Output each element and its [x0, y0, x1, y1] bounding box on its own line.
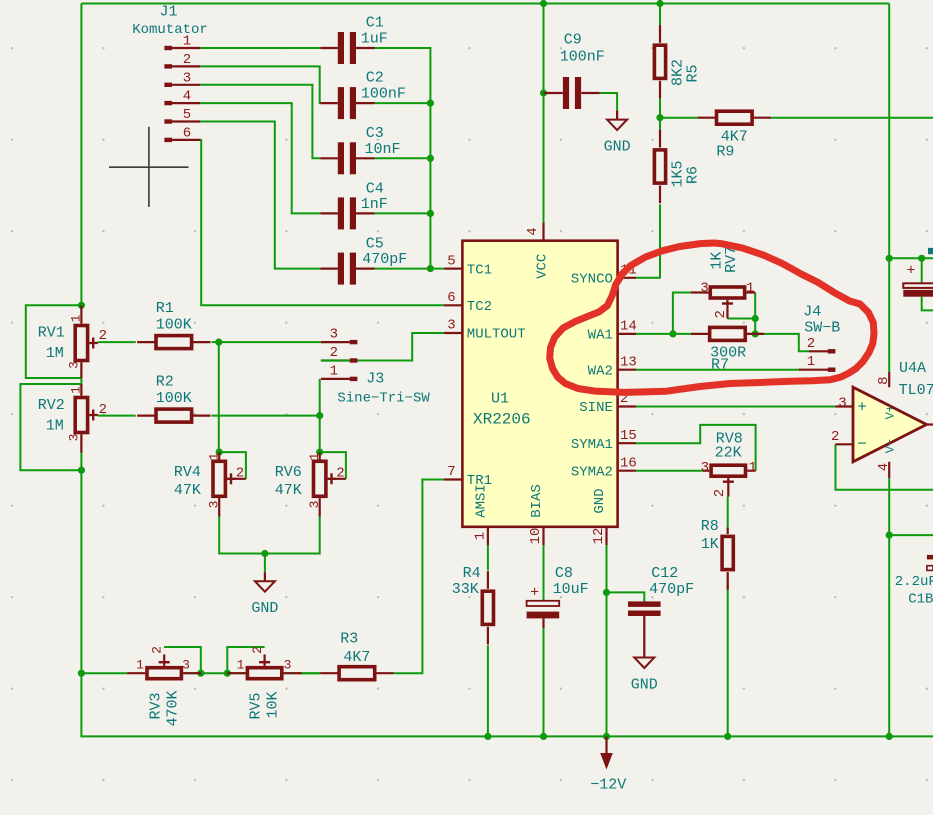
svg-text:C5: C5 [366, 236, 384, 253]
svg-text:47K: 47K [275, 482, 302, 499]
svg-text:C1B: C1B [908, 592, 933, 608]
wire RV4 pin1 stub [218, 452, 220, 459]
svg-text:10nF: 10nF [364, 141, 400, 158]
wire RV2 pin3 down left rail [80, 434, 82, 673]
svg-text:C2: C2 [366, 70, 384, 87]
wire J1 pin5 to C5 [200, 122, 320, 269]
wire SYMA2 to RV8 pin3 [636, 470, 703, 472]
wire SINE to opamp + [636, 406, 836, 408]
junction RV3 pin3 [197, 670, 204, 677]
connector J3 pin 2 [321, 345, 412, 363]
svg-text:3: 3 [447, 318, 455, 334]
wire SYMA1 to RV8 pin1 [636, 425, 756, 471]
junction top rail / R5 [656, 0, 663, 7]
wire RV5 to R3 [283, 672, 320, 674]
capacitor C8 (polarized 10uF) [527, 585, 560, 629]
wire RV4 pin3 to gnd node [219, 517, 265, 554]
svg-text:1: 1 [330, 363, 338, 379]
svg-text:+: + [530, 585, 539, 602]
svg-text:WA2: WA2 [588, 363, 613, 379]
svg-text:470pF: 470pF [362, 251, 407, 268]
svg-text:1uF: 1uF [361, 30, 388, 47]
wire RV8 pin3 lead [703, 470, 709, 472]
wire RV3 pin3 lead [183, 672, 201, 674]
ground symbol near C9 [604, 120, 631, 156]
junction right rail C10 [886, 255, 893, 262]
svg-text:1: 1 [807, 354, 815, 370]
svg-text:4K7: 4K7 [343, 649, 370, 666]
junction R5 R6 R9 [656, 114, 663, 121]
svg-text:SYMA2: SYMA2 [571, 464, 613, 480]
junction top rail / VCC [540, 0, 547, 7]
svg-text:R7: R7 [711, 357, 729, 374]
svg-text:C9: C9 [564, 31, 582, 48]
svg-text:3: 3 [307, 501, 322, 509]
svg-text:2: 2 [149, 646, 164, 654]
wire node to C1B [889, 534, 933, 536]
potentiometer RV7 [710, 287, 744, 319]
capacitor C5 [338, 253, 356, 285]
wire left rail top segment [80, 4, 82, 306]
svg-text:3: 3 [206, 501, 221, 509]
svg-text:2: 2 [236, 466, 244, 482]
wire R1 to J3 pin3 [212, 341, 321, 343]
wire J1 pin2 to C2 [200, 66, 320, 103]
junction WA1 RV7 [669, 330, 676, 337]
svg-text:BIAS: BIAS [529, 484, 545, 518]
wire node to R9 [660, 117, 698, 119]
wire RV5 pin3 lead [284, 672, 302, 674]
wire R1 node down to RV4 [218, 342, 220, 452]
potentiometer RV3 [147, 654, 181, 678]
svg-text:RV5: RV5 [248, 692, 265, 719]
svg-text:4: 4 [525, 227, 541, 235]
connector J3 pin 3 [321, 327, 358, 345]
wire C4 right lead [356, 212, 375, 214]
svg-text:+: + [906, 263, 915, 280]
wire AMSI to R4 [487, 545, 489, 570]
svg-text:2: 2 [330, 345, 338, 361]
wire C9 right lead [581, 92, 599, 94]
junction rail RV1 [78, 302, 85, 309]
U1 pin 13 WA2 [588, 354, 637, 379]
potentiometer RV4 [213, 461, 236, 496]
svg-text:R8: R8 [701, 518, 719, 535]
red freehand annotation circle [550, 243, 874, 392]
svg-text:J4: J4 [803, 304, 821, 321]
capacitor C4 [338, 197, 356, 229]
svg-text:1: 1 [307, 452, 322, 460]
svg-text:1K: 1K [701, 536, 719, 553]
svg-text:2: 2 [336, 466, 344, 482]
svg-text:100nF: 100nF [361, 86, 406, 103]
connector J3 pin 1 [321, 363, 358, 381]
svg-text:Sine−Tri−SW: Sine−Tri−SW [337, 390, 430, 406]
wire C2 left lead [320, 102, 338, 104]
connector J4 pin 2 [807, 336, 836, 354]
junction bottom rail GND12 [603, 733, 610, 740]
U1 pin 10 BIAS [528, 484, 545, 545]
junction R2 J3 [316, 412, 323, 419]
wire RV5 pin1 lead [227, 672, 245, 674]
wire RV4 wiper stub [227, 478, 246, 480]
wire R3 to TR1 [394, 480, 445, 674]
U1 pin 11 SYNCO [571, 263, 637, 288]
wire RV1 pin1 stub [80, 305, 82, 323]
svg-text:MULTOUT: MULTOUT [467, 327, 526, 343]
svg-text:C12: C12 [651, 565, 678, 582]
wire RV1 wiper to R1 [98, 341, 136, 343]
svg-text:RV1: RV1 [38, 324, 65, 341]
svg-text:3: 3 [182, 657, 190, 672]
junction rail RV2 pin3 [78, 467, 85, 474]
wire RV7 wiper to node [727, 318, 755, 320]
svg-text:1: 1 [136, 657, 144, 672]
resistor R4 [482, 571, 493, 644]
wire C2 to bus [375, 102, 431, 104]
junction C10 top [918, 255, 925, 262]
wire RV6 wiper stub [328, 478, 346, 480]
svg-text:100nF: 100nF [560, 48, 605, 65]
wire RV6 pin1 stub [319, 452, 321, 459]
svg-text:7: 7 [447, 464, 455, 480]
U1 pin 14 WA1 [588, 319, 637, 344]
resistor R2 [137, 409, 210, 422]
svg-text:SW−B: SW−B [804, 320, 840, 337]
svg-text:C4: C4 [366, 180, 384, 197]
svg-text:6: 6 [447, 290, 455, 306]
capacitor C2 [338, 87, 356, 119]
wire C9 gnd stub [616, 110, 618, 119]
svg-text:U1: U1 [491, 391, 509, 408]
capacitor C3 [338, 142, 356, 174]
U1 pin 15 SYMA1 [571, 428, 637, 453]
wire J1 pin1 to C1 [200, 47, 320, 49]
wire C1 left lead [320, 47, 338, 49]
junction RV4 pin1 [216, 449, 223, 456]
U1 pin 7 TR1 [444, 464, 492, 489]
junction VCC / C9 [540, 89, 547, 96]
svg-text:V+: V+ [884, 405, 898, 419]
svg-text:3: 3 [66, 361, 81, 369]
svg-text:Komutator: Komutator [132, 22, 208, 38]
svg-text:TC2: TC2 [467, 299, 492, 315]
svg-text:AMSI: AMSI [474, 484, 490, 518]
wire gnd node stub [264, 554, 266, 573]
svg-text:12: 12 [591, 528, 607, 545]
svg-text:C3: C3 [366, 125, 384, 142]
svg-text:SYMA1: SYMA1 [571, 437, 613, 453]
wire RV1 bypass loop [26, 305, 82, 378]
svg-text:47K: 47K [174, 482, 201, 499]
wire BIAS to C8 [543, 545, 545, 601]
svg-text:R5: R5 [685, 64, 702, 82]
svg-text:1: 1 [206, 452, 221, 460]
junction RV6 pin1 [316, 449, 323, 456]
junction RV7 wiper [752, 315, 759, 322]
junction R7 RV7 [752, 330, 759, 337]
svg-text:22K: 22K [715, 444, 742, 461]
svg-text:16: 16 [620, 455, 637, 471]
svg-text:R2: R2 [156, 373, 174, 390]
wire RV6 pin3 to gnd node [265, 517, 320, 554]
svg-text:1: 1 [748, 460, 756, 476]
resistor R9 [698, 111, 771, 124]
wire to C10 [889, 257, 933, 259]
connector J1 pin 2 [164, 52, 200, 69]
wire VCC column [543, 4, 545, 223]
wire J3 pin2 to MULTOUT [321, 333, 444, 361]
wire RV6 pin3 stub [319, 498, 321, 516]
resistor R6 [654, 130, 665, 203]
connector J4 pin 1 [799, 354, 836, 372]
wire RV8 wiper to R8 [727, 497, 729, 528]
ground symbol below C12 [631, 658, 658, 694]
svg-text:3: 3 [700, 281, 708, 297]
svg-text:RV4: RV4 [174, 464, 201, 481]
wire top rail to R5 [659, 4, 661, 26]
capacitor C10 (cut at edge) [903, 248, 933, 297]
junction RV4 RV6 gnd [261, 550, 268, 557]
U4A pin 8 V+ [876, 372, 898, 419]
svg-text:5: 5 [447, 253, 455, 269]
svg-text:2: 2 [831, 429, 839, 445]
wire RV2 wiper to R2 [98, 415, 136, 417]
svg-text:SYNCO: SYNCO [571, 272, 613, 288]
wire opamp V- down to bottom rail [888, 478, 890, 736]
junction bottom rail R8 [724, 733, 731, 740]
wire C2 right lead [356, 102, 375, 104]
U1 pin 1 AMSI [473, 484, 490, 545]
wire C5 left lead [320, 268, 338, 270]
svg-text:3: 3 [330, 327, 338, 343]
svg-text:V−: V− [884, 439, 898, 453]
connector J1 pin 5 [164, 107, 200, 124]
cursor crosshair [109, 127, 189, 207]
wire C bus vertical [375, 48, 431, 269]
capacitor C9 [563, 77, 581, 109]
op-amp U4A body [853, 387, 927, 462]
svg-text:GND: GND [251, 600, 278, 617]
wire R5 to R6 node [659, 99, 661, 148]
wire C3 to bus [375, 157, 431, 159]
potentiometer RV2 [75, 398, 98, 433]
wire gnd red stub [264, 572, 266, 581]
wire C8 to bottom rail [543, 628, 545, 736]
svg-text:1: 1 [183, 34, 191, 50]
svg-text:4: 4 [876, 463, 892, 471]
svg-text:2: 2 [712, 489, 728, 497]
wire WA1 to R7 [636, 333, 691, 335]
svg-text:10K: 10K [265, 691, 282, 718]
wire right rail to opamp V+ [888, 4, 890, 373]
wire C10 bottom lead [922, 297, 933, 311]
U1 pin 2 SINE [579, 391, 636, 416]
wire RV5 to R3 green [302, 672, 320, 674]
junction bus C5 TC1 [427, 265, 434, 272]
svg-text:10uF: 10uF [553, 581, 589, 598]
svg-text:2: 2 [99, 402, 107, 418]
wire J1 pin3 to C3 [200, 85, 320, 159]
U1 pin 3 MULTOUT [444, 318, 526, 343]
wire C4 to bus [375, 212, 431, 214]
junction right rail C1B [886, 532, 893, 539]
junction bottom rail right [886, 733, 893, 740]
capacitor C1 [338, 32, 356, 64]
op-amp U1 body (XR2206 chip) [462, 241, 617, 527]
wire RV3 to RV5 [183, 672, 246, 674]
svg-text:R9: R9 [716, 143, 734, 160]
U1 pin 16 SYMA2 [571, 455, 637, 480]
wire RV7 pin1 lead [746, 291, 755, 293]
wire opamp inverting feedback [836, 444, 933, 490]
svg-text:3: 3 [701, 460, 709, 476]
connector J1 pin 4 [164, 89, 200, 106]
junction bus C4 [427, 210, 434, 217]
svg-text:TC1: TC1 [467, 262, 492, 278]
potentiometer RV8 [711, 465, 745, 496]
svg-text:WA1: WA1 [588, 328, 613, 344]
wire WA1 node to RV7 pin3 [673, 293, 691, 334]
wire J1 pin6 to TC2 [200, 140, 444, 305]
svg-text:J3: J3 [366, 371, 384, 388]
wire C9 left lead [544, 92, 563, 94]
wire R4 to bottom rail [487, 645, 489, 736]
svg-text:470K: 470K [164, 690, 181, 726]
U4A pin 2 inverting input [831, 429, 867, 453]
wire R8 to bottom rail [727, 580, 729, 736]
svg-text:−: − [857, 435, 867, 453]
wire RV2 bypass loop [20, 384, 81, 470]
wire RV6 bypass loop [320, 452, 346, 479]
svg-text:1M: 1M [46, 345, 64, 362]
power symbol -12V [590, 736, 626, 793]
svg-text:VCC: VCC [535, 254, 551, 279]
svg-text:GND: GND [592, 488, 608, 513]
svg-text:J1: J1 [159, 4, 177, 21]
svg-text:2: 2 [250, 646, 265, 654]
wire RV2 pin3 stub [80, 434, 82, 452]
svg-text:8: 8 [876, 376, 892, 384]
svg-text:13: 13 [620, 354, 637, 370]
svg-text:6: 6 [183, 126, 191, 142]
svg-text:33K: 33K [452, 581, 479, 598]
wire RV3 bypass loop [164, 647, 201, 673]
svg-text:SINE: SINE [579, 400, 613, 416]
svg-text:RV2: RV2 [38, 397, 65, 414]
svg-text:5: 5 [183, 107, 191, 123]
connector J1 pin 3 [164, 70, 200, 87]
junction rail RV3 row [78, 670, 85, 677]
svg-text:TL072: TL072 [899, 382, 933, 399]
svg-text:1nF: 1nF [361, 196, 388, 213]
junction bottom rail R4 [484, 733, 491, 740]
wire RV2 pin1 stub [80, 384, 82, 396]
svg-text:1: 1 [237, 657, 245, 672]
svg-text:10: 10 [528, 528, 544, 545]
wire +12V top rail [81, 3, 889, 5]
U4A output pin [927, 423, 933, 425]
U4A pin 4 V- [876, 439, 898, 478]
svg-text:4: 4 [183, 89, 191, 105]
svg-text:1: 1 [68, 314, 83, 322]
wire C3 right lead [356, 157, 375, 159]
U1 pin 6 TC2 [444, 290, 492, 315]
svg-text:RV6: RV6 [275, 464, 302, 481]
svg-text:RV3: RV3 [147, 692, 164, 719]
U4A pin 3 non-inverting input [836, 395, 867, 416]
wire R2 to J3 node [212, 415, 320, 417]
svg-text:2: 2 [183, 52, 191, 68]
U1 pin 5 TC1 [444, 253, 492, 278]
svg-text:100K: 100K [156, 317, 192, 334]
wire C9 to GND [600, 93, 617, 110]
resistor R3 [320, 667, 393, 680]
connector J1 pin 6 [164, 126, 200, 143]
wire RV3 pin1 lead [127, 672, 145, 674]
svg-text:14: 14 [620, 319, 637, 335]
wire C5 right lead [356, 268, 375, 270]
svg-text:GND: GND [604, 139, 631, 156]
junction bus C3 [427, 155, 434, 162]
svg-text:XR2206: XR2206 [473, 411, 531, 429]
wire RV1 pin3 to RV2 pin1 chain [80, 362, 82, 395]
resistor R1 [137, 336, 210, 349]
wire RV4 bypass loop [219, 452, 246, 479]
svg-text:1: 1 [746, 281, 754, 297]
U1 pin 12 GND [591, 488, 608, 545]
svg-text:GND: GND [631, 677, 658, 694]
svg-text:3: 3 [66, 434, 81, 442]
junction R1 output [215, 339, 222, 346]
capacitor C1B (cut at edge) [927, 555, 933, 571]
resistor R5 [654, 25, 665, 98]
wire RV5 bypass loop [227, 647, 264, 673]
svg-text:470pF: 470pF [649, 581, 694, 598]
svg-text:1: 1 [68, 386, 83, 394]
U1 pin 4 VCC [525, 222, 550, 279]
svg-text:2.2uF: 2.2uF [895, 574, 933, 590]
svg-text:3: 3 [838, 395, 846, 411]
wire C1 right lead [356, 47, 375, 49]
wire -12V bottom rail [81, 673, 933, 736]
svg-text:1M: 1M [46, 417, 64, 434]
svg-text:−12V: −12V [590, 777, 626, 794]
svg-text:1: 1 [473, 532, 489, 540]
resistor R8 [722, 528, 733, 590]
wire C5 bus to TC1 [375, 268, 445, 270]
svg-text:2: 2 [713, 310, 729, 318]
wire R7 to J4 pin2 [755, 334, 809, 351]
potentiometer RV1 [75, 326, 98, 361]
svg-text:100K: 100K [156, 390, 192, 407]
svg-text:R6: R6 [685, 166, 702, 184]
capacitor C12 [628, 601, 661, 657]
potentiometer RV5 [247, 654, 281, 678]
wire RV1 pin3 stub [80, 362, 82, 378]
svg-text:+: + [857, 399, 867, 417]
resistor R7 [691, 327, 764, 340]
wire RV7 pin1 down to R7 node [754, 293, 756, 334]
connector J1 pin 1 [164, 34, 200, 51]
junction RV5 pin1 [224, 670, 231, 677]
wire to C12 [607, 592, 645, 601]
svg-text:C1: C1 [366, 14, 384, 31]
svg-text:C8: C8 [555, 565, 573, 582]
wire WA2 to J4 pin1 [636, 369, 799, 371]
ground symbol below RV4/RV6 [251, 581, 278, 617]
svg-text:U4A: U4A [899, 360, 926, 377]
